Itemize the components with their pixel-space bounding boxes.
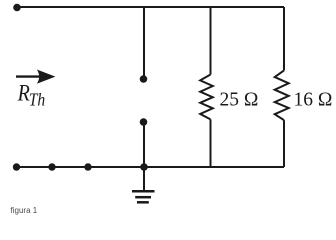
- svg-text:figura 1: figura 1: [11, 206, 38, 215]
- node e (bottom wire dot): [48, 163, 55, 170]
- wire middle branch lower segment: [143, 122, 145, 167]
- resistor R2 16-ohm zigzag: [275, 70, 289, 120]
- wire 25-ohm branch top lead: [210, 7, 212, 75]
- node b (upper open terminal dot): [140, 75, 148, 83]
- svg-text:Th: Th: [29, 89, 46, 109]
- wire 16-ohm branch bottom lead: [283, 120, 285, 167]
- node f (bottom wire dot): [84, 163, 91, 170]
- node c (lower open terminal dot): [140, 118, 148, 126]
- arrow RTh direction indicator: [16, 70, 55, 84]
- node g (ground junction dot): [140, 163, 148, 171]
- svg-text:16 Ω: 16 Ω: [294, 89, 333, 110]
- wire top horizontal: [16, 6, 284, 8]
- node d (bottom-left terminal dot): [13, 163, 20, 170]
- wire middle branch upper segment: [143, 7, 145, 78]
- node a (top-left terminal dot): [13, 4, 21, 12]
- wire bottom horizontal: [16, 166, 284, 168]
- wire 16-ohm branch top lead: [283, 7, 285, 70]
- svg-text:25 Ω: 25 Ω: [220, 89, 259, 110]
- wire 25-ohm branch bottom lead: [210, 119, 212, 167]
- ground: [132, 167, 155, 202]
- resistor R1 25-ohm zigzag: [200, 75, 213, 120]
